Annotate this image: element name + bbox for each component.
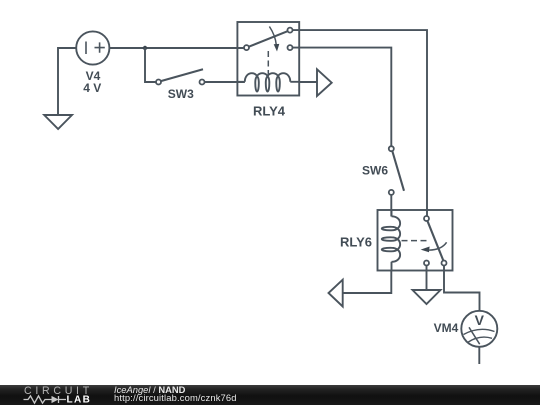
wire V4 to RLY4 switch input: [109, 47, 244, 49]
logo diode: [52, 396, 59, 403]
voltage source V4: [76, 31, 109, 64]
wire RLY6 coil bottom to flag: [343, 270, 392, 293]
wire V4 left lead to ground: [58, 48, 77, 114]
svg-text:4 V: 4 V: [83, 81, 101, 95]
svg-text:VM4: VM4: [434, 321, 459, 335]
wire SW6 to RLY6 coil: [390, 195, 392, 217]
svg-text:RLY6: RLY6: [340, 235, 372, 250]
svg-text:SW6: SW6: [362, 164, 388, 178]
svg-text:RLY4: RLY4: [253, 104, 286, 119]
wire RLY6 contact to VM4: [444, 266, 480, 312]
flag (right-pointing, at RLY4 coil output): [317, 69, 332, 96]
wire RLY4 common to SW6: [293, 48, 392, 147]
flag (left-pointing, at RLY6 coil bottom): [329, 280, 343, 307]
voltmeter VM4: [461, 311, 497, 347]
node junction: [143, 46, 147, 50]
svg-text:http://circuitlab.com/cznk76d: http://circuitlab.com/cznk76d: [114, 392, 237, 403]
ground (under V4): [44, 115, 72, 129]
switch SW6: [389, 146, 404, 195]
wire SW3 to RLY4 coil: [205, 81, 245, 83]
logo resistor squiggle: [24, 396, 52, 403]
relay RLY4: [237, 22, 299, 96]
svg-text:V: V: [475, 312, 485, 328]
wire RLY6 NO contact to ground: [426, 266, 428, 290]
svg-text:LAB: LAB: [67, 395, 92, 405]
wire junction down to SW3: [145, 48, 156, 82]
switch SW3: [156, 69, 205, 84]
wire VM4 bottom stub: [478, 347, 480, 364]
wire RLY4 NC contact to RLY6 switch common: [293, 30, 428, 216]
relay RLY6: [378, 210, 453, 271]
wire RLY4 coil to flag: [299, 81, 317, 83]
footer bar: [0, 385, 540, 405]
ground (under RLY6): [413, 290, 441, 304]
svg-text:SW3: SW3: [168, 87, 194, 101]
